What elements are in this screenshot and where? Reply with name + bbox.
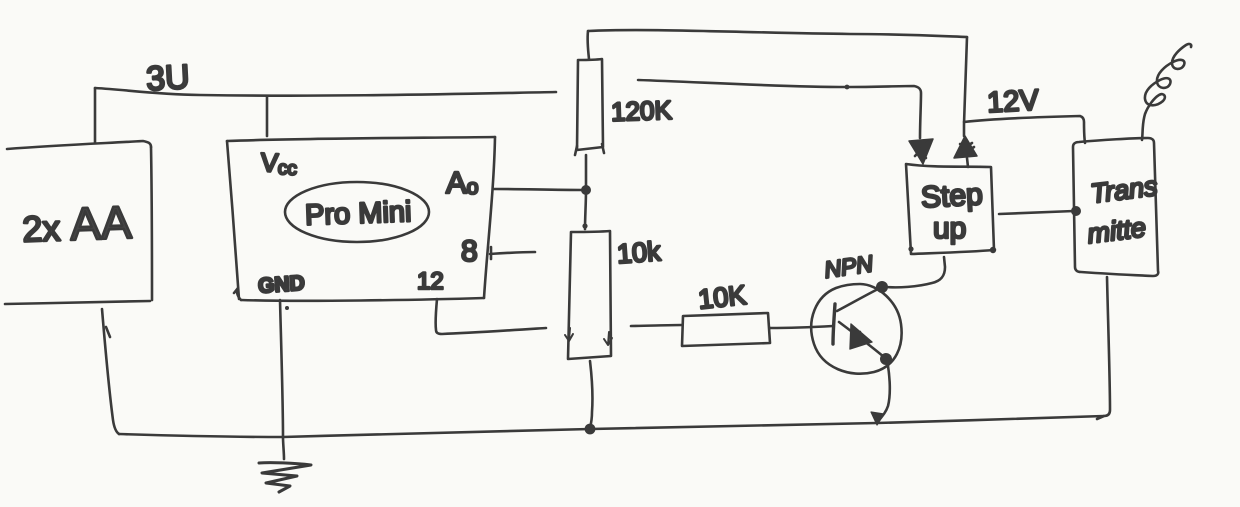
svg-text:NPN: NPN (823, 250, 875, 283)
svg-text:10k: 10k (616, 236, 662, 269)
svg-text:2x AA: 2x AA (21, 196, 132, 252)
svg-text:Ao: Ao (446, 165, 478, 200)
arrow emitter to rail (871, 412, 884, 425)
wire top rail right drop (964, 37, 967, 136)
svg-text:GND: GND (257, 272, 305, 298)
label ellipse Pro Mini (285, 182, 429, 242)
op-module U1 Pro Mini box (227, 137, 495, 301)
svg-text:3U: 3U (145, 58, 190, 98)
wire R2 bottom to ground rail (590, 361, 592, 428)
svg-text:12V: 12V (986, 84, 1040, 119)
wire R1 bottom stub (585, 155, 588, 190)
resistor R3 10K horizontal (682, 313, 770, 346)
wire node to R2 top (585, 190, 586, 229)
wire divider mid to R3 left (631, 325, 682, 326)
wire battery bottom down (102, 309, 119, 434)
wire GND pin down (280, 300, 284, 459)
antenna coil (1142, 44, 1191, 140)
wire Vcc drop (266, 97, 269, 136)
diode arrow down (step-up input) (909, 139, 933, 164)
node divider junction (581, 185, 591, 195)
node collector dot (876, 281, 888, 293)
wire transmitter bottom to ground rail (1097, 277, 1110, 419)
wire base to emitter (839, 322, 884, 357)
module transmitter box (1073, 138, 1158, 276)
svg-text:Trans: Trans (1089, 171, 1159, 209)
emitter arrow filled (850, 324, 872, 349)
svg-text:Pro Mini: Pro Mini (305, 196, 412, 232)
node emitter dot (880, 353, 892, 365)
wire step-up bottom to Q1 collector (886, 257, 945, 287)
diode arrow up (step-up output) (954, 136, 977, 167)
ground symbol (259, 463, 311, 492)
svg-text:10K: 10K (697, 280, 748, 315)
wire base to collector (837, 288, 880, 311)
wire pin12 down and right (436, 299, 546, 334)
node transmitter input junction (1071, 206, 1081, 216)
svg-text:8: 8 (461, 235, 478, 268)
wire top rail (588, 30, 967, 37)
node 3V rail wire (95, 88, 556, 96)
module step up box (906, 164, 996, 254)
tick mark (106, 327, 110, 337)
wire battery top to 3V rail (94, 88, 97, 143)
transistor base bar (833, 304, 835, 344)
resistor R1 120K (575, 59, 604, 155)
battery B1 2xAA box (5, 141, 152, 304)
transistor Q1 NPN body circle (811, 284, 901, 374)
wire A0 to divider node (494, 189, 583, 190)
wire R1 top to top rail (588, 31, 589, 59)
resistor R2 10k vertical (565, 231, 612, 359)
wire R3 to base (769, 327, 772, 330)
node ground rail junction (585, 424, 596, 435)
svg-text:Vcc: Vcc (260, 147, 298, 180)
svg-text:up: up (933, 212, 966, 245)
wire emitter down to ground rail (878, 360, 890, 421)
svg-text:Step: Step (920, 178, 983, 214)
pin 8 stub wire (490, 247, 535, 259)
wire step-up out to transmitter (999, 211, 1074, 214)
svg-text:mitte: mitte (1086, 212, 1148, 249)
wire ground rail bottom (119, 416, 1104, 437)
wire base from R3 (770, 326, 833, 328)
wire 12V branch (964, 116, 1085, 143)
svg-text:12: 12 (417, 268, 444, 295)
wire 3V rail to step-up input (638, 80, 921, 138)
svg-text:120K: 120K (611, 95, 673, 127)
